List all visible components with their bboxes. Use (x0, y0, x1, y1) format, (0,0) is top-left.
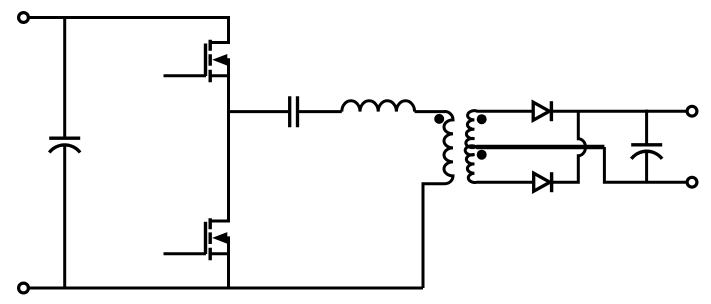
terminal input + (top-left) (19, 13, 29, 23)
transformer secondary lower winding (465, 146, 603, 183)
wire top rail to Q1 drain (30, 18, 229, 45)
wire Q1 source to Q2 drain (half-bridge midpoint) (227, 60, 230, 221)
diode D2 triangle (534, 173, 550, 191)
terminal output + (top-right) (687, 106, 697, 116)
capacitor C3 output curved plate (631, 151, 662, 159)
diode D2 cathode bar (550, 172, 553, 192)
transistor Q1 gate bar (204, 44, 207, 77)
wire center tap drop and bottom output rail (603, 146, 687, 182)
capacitor C1 input bulk curved plate (49, 145, 80, 153)
wire output cap branch top (645, 110, 648, 146)
capacitor C3 output top plate (631, 143, 662, 146)
wire bottom rail (30, 287, 424, 290)
wire midpoint to resonant cap (229, 110, 289, 113)
diode D1 triangle (533, 102, 549, 120)
inductor L1 resonant (342, 101, 415, 112)
terminal output - (bottom-right) (687, 177, 697, 187)
transistor Q2 channel segments (208, 218, 211, 260)
capacitor C2 resonant plates (290, 96, 298, 127)
transformer primary winding (423, 112, 453, 288)
transistor Q2 gate bar (204, 222, 207, 254)
wire input cap branch top (63, 16, 66, 139)
transformer primary polarity dot (434, 114, 444, 124)
transformer secondary upper polarity dot (477, 114, 487, 124)
transistor Q2 drain lead (210, 220, 230, 223)
transistor Q1 drain lead (210, 41, 230, 44)
diode D1 cathode bar (550, 101, 553, 121)
transformer secondary upper winding (466, 111, 603, 148)
wire input cap branch bottom (63, 147, 66, 289)
transistor Q2 gate lead (164, 252, 207, 255)
wire D1 cathode to top rail and output terminal (551, 110, 687, 113)
terminal input - (bottom-left) (19, 283, 29, 293)
wire output cap branch bottom (645, 153, 648, 182)
wire Q2 source to bottom rail (227, 238, 230, 288)
transistor Q1 source lead (210, 74, 230, 77)
transformer secondary lower polarity dot (477, 150, 487, 160)
transistor Q1 channel segments (208, 40, 211, 83)
wire inductor to transformer primary (415, 110, 445, 113)
transistor Q1 gate lead (164, 74, 207, 77)
wire resonant cap to inductor (299, 110, 342, 113)
transistor Q2 source lead (210, 252, 230, 255)
capacitor C1 input bulk top plate (49, 136, 80, 139)
transistor Q2 body arrow (212, 232, 230, 244)
wire rectifier vertical with crossover hop (552, 111, 586, 182)
transistor Q1 body arrow (212, 54, 230, 66)
